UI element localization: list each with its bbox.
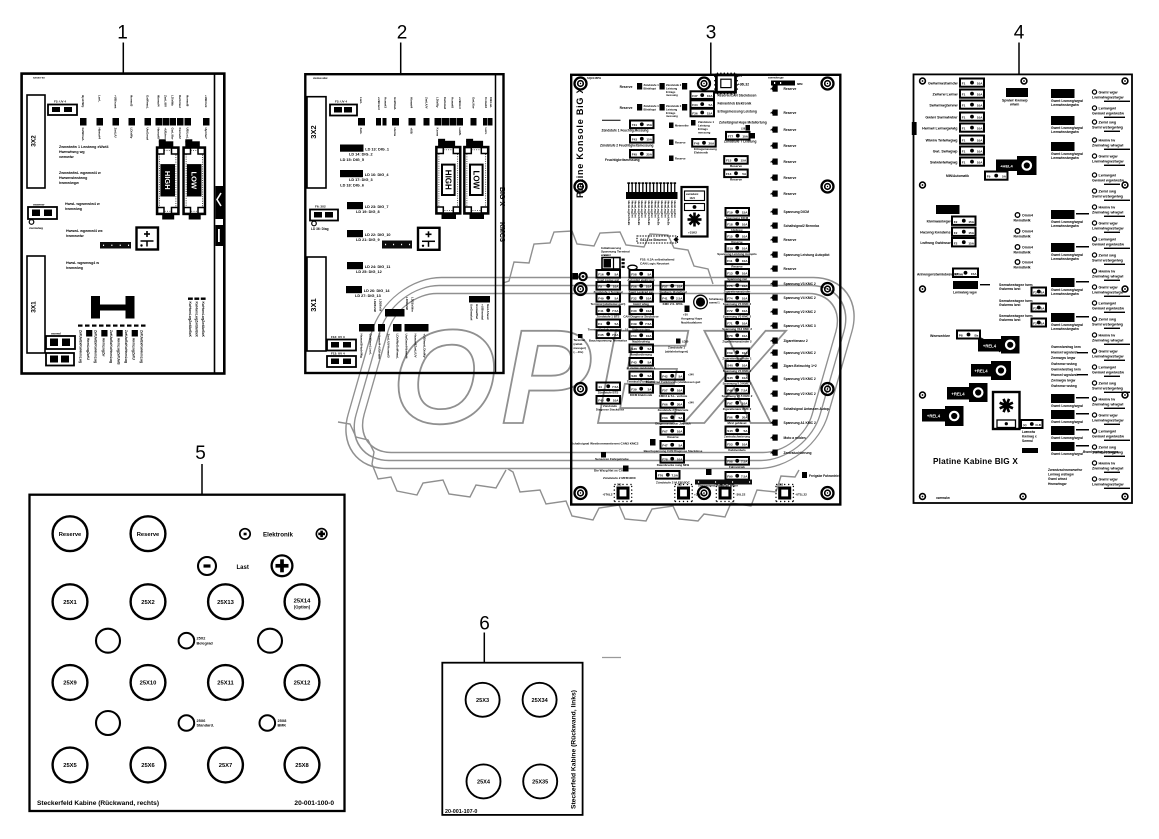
svg-text:+31K2: +31K2 [688, 231, 697, 235]
svg-text:10A: 10A [977, 139, 983, 143]
svg-text:Hwmw lw: Hwmw lw [1099, 270, 1116, 274]
svg-text:ZwtL/UV: ZwtL/UV [164, 95, 168, 107]
svg-text:HwwL wgwmwlw4 w: HwwL wgwmwlw4 w [65, 202, 100, 206]
svg-text:-0T1L22: -0T1L22 [795, 493, 807, 497]
svg-text:Moto a milden: Moto a milden [784, 436, 806, 440]
svg-text:BIG X: BIG X [498, 187, 505, 206]
svg-text:10A: 10A [613, 399, 619, 403]
svg-text:F46: F46 [727, 389, 733, 393]
svg-text:15A: 15A [646, 123, 652, 127]
svg-text:Lwmwgwl: Lwmwgwl [1099, 366, 1116, 370]
svg-text:Zündstufe T Leistung: Zündstufe T Leistung [724, 140, 756, 144]
svg-text:Hwmw lw: Hwmw lw [1099, 206, 1116, 210]
svg-text:Swlwlwlwlwgwg: Swlwlwlwlwgwg [930, 161, 958, 165]
svg-text:S45: S45 [727, 376, 733, 380]
svg-text:S36: S36 [631, 347, 637, 351]
svg-text:+HEL4: +HEL4 [1000, 164, 1013, 169]
svg-text:Reserve: Reserve [137, 532, 160, 538]
svg-text:Terminal (wlwtwmw gwrt): Terminal (wlwtwmw gwrt) [591, 302, 626, 306]
svg-text:HIGH: HIGH [444, 170, 453, 190]
svg-text:10A: 10A [742, 322, 748, 326]
svg-text:Gwml wgw: Gwml wgw [1099, 478, 1118, 482]
svg-text:10A: 10A [707, 94, 713, 98]
svg-text:Spannung V4 KMC 2: Spannung V4 KMC 2 [723, 369, 752, 373]
svg-text:CAN Logic Neustart: CAN Logic Neustart [640, 262, 669, 266]
svg-text:Spannung V2 KMC 2: Spannung V2 KMC 2 [784, 392, 816, 396]
svg-text:4: 4 [1014, 23, 1025, 44]
svg-text:-0T6L2: -0T6L2 [603, 493, 613, 497]
svg-text:Zwmwlwg wlwgwl: Zwmwlwg wlwgwl [1092, 144, 1123, 148]
svg-text:15A: 15A [968, 241, 974, 245]
svg-text:(Option): (Option) [294, 605, 311, 610]
svg-text:15A: 15A [968, 231, 974, 235]
svg-text:F71: F71 [727, 322, 733, 326]
svg-text:Gwml wgw: Gwml wgw [1099, 91, 1118, 95]
svg-text:LD 15: DIG_5: LD 15: DIG_5 [340, 158, 364, 162]
svg-text:Zweiterrad Funktionen (stattde: Zweiterrad Funktionen (stattdessen gwt [646, 380, 701, 384]
svg-text:Fahrantrieb Elektronik: Fahrantrieb Elektronik [718, 102, 752, 106]
svg-text:LD 27: DIG_13: LD 27: DIG_13 [355, 294, 381, 298]
svg-text:(abfahrbelogert): (abfahrbelogert) [665, 350, 688, 354]
svg-text:+REL4: +REL4 [927, 414, 941, 419]
svg-text:10A: 10A [677, 285, 683, 289]
svg-text:+UB/mntwl: +UB/mntwl [481, 304, 485, 320]
svg-text:Zentralschmierung: Zentralschmierung [724, 435, 750, 439]
svg-text:LD28/xWl: LD28/xWl [373, 299, 377, 312]
svg-text:+UB/mnt: +UB/mnt [458, 97, 462, 109]
svg-text:10A: 10A [742, 402, 748, 406]
svg-text:20A: 20A [709, 142, 715, 146]
svg-text:Zündstufe 2: Zündstufe 2 [666, 104, 682, 108]
svg-text:Lwmwlwgwstwgw: Lwmwlwgwstwgw [1092, 419, 1124, 423]
svg-text:Zigarettenanz KMC 2: Zigarettenanz KMC 2 [723, 407, 752, 411]
svg-text:F67: F67 [662, 430, 668, 434]
svg-text:Gwml wlwst: Gwml wlwst [1048, 477, 1068, 481]
svg-text:Hwwmwlwstwng: Hwwmwlwstwng [59, 176, 87, 180]
svg-text:Omm4: Omm4 [1022, 261, 1033, 265]
svg-text:Reserve: Reserve [784, 160, 797, 164]
svg-text:Spannung V2.5 KMC 2: Spannung V2.5 KMC 2 [722, 394, 753, 398]
svg-text:Gwlwmwstwmdw: Gwlwmwstwmdw [928, 82, 958, 86]
svg-text:GwL/Uwwl: GwL/Uwwl [486, 304, 490, 320]
svg-text:F72: F72 [727, 309, 733, 313]
svg-text:Kxmwl2: Kxmwl2 [484, 97, 488, 108]
svg-text:HwwL wgwmwg4 w: HwwL wgwmwg4 w [66, 261, 99, 265]
svg-text:25X11: 25X11 [217, 681, 234, 687]
svg-text:+UB/mntLD/xWy: +UB/mntLD/xWy [423, 334, 427, 358]
svg-text:Gwl. Swlwgwp: Gwl. Swlwgwp [933, 150, 959, 154]
svg-text:+REL4: +REL4 [974, 369, 988, 374]
svg-text:Spannung V13 KMC 2: Spannung V13 KMC 2 [722, 327, 752, 331]
svg-text:25X6: 25X6 [197, 719, 206, 723]
svg-text:F76: F76 [658, 474, 664, 478]
svg-text:Gwmwlwstwg lwm: Gwmwlwstwg lwm [1051, 367, 1081, 371]
svg-text:F16: F16 [598, 273, 604, 277]
svg-text:Zwswtzschwmwwrfwr: Zwswtzschwmwwrfwr [1048, 468, 1083, 472]
svg-text:Lwmwlwstwgwlw: Lwmwlwstwgwlw [1051, 224, 1079, 228]
svg-text:Wwrwwhlwr: Wwrwwhlwr [930, 334, 951, 338]
svg-text:10A: 10A [646, 309, 652, 313]
svg-text:HwwwL wgwmwl4 wx: HwwwL wgwmwl4 wx [66, 229, 103, 233]
svg-text:F40: F40 [598, 399, 604, 403]
svg-text:Spannung V4 KMC 2: Spannung V4 KMC 2 [784, 351, 816, 355]
svg-text:Spannung V3 KMC 2: Spannung V3 KMC 2 [723, 315, 752, 319]
svg-text:Steckerfeld Kabine (Rückwand,: Steckerfeld Kabine (Rückwand, rechts) [37, 800, 159, 807]
svg-text:Gwmwl wgwlwstw: Gwmwl wgwlwstw [1092, 307, 1124, 311]
svg-text:Gwmwl wgwlwstw: Gwmwl wgwlwstw [1092, 243, 1124, 247]
svg-text:Lwmwgwl: Lwmwgwl [1099, 107, 1116, 111]
svg-text:Omm4: Omm4 [1022, 214, 1033, 218]
svg-text:+UB/mnt: +UB/mnt [204, 95, 208, 107]
svg-text:10A: 10A [613, 285, 619, 289]
svg-text:10A: 10A [742, 272, 748, 276]
svg-text:25X12: 25X12 [294, 681, 311, 687]
svg-text:Belegrad: Belegrad [197, 641, 214, 645]
svg-text:15A: 15A [646, 138, 652, 142]
svg-text:Reserve: Reserve [59, 532, 82, 538]
svg-text:Reserve: Reserve [784, 192, 797, 196]
svg-text:10A: 10A [742, 443, 748, 447]
svg-text:F1: F1 [962, 139, 966, 143]
svg-text:25X2: 25X2 [141, 600, 155, 606]
svg-text:wlwm: wlwm [1009, 103, 1019, 107]
svg-text:10A: 10A [742, 235, 748, 239]
svg-text:Spannung xwl: Spannung xwl [727, 277, 747, 281]
svg-text:F69: F69 [727, 351, 733, 355]
svg-text:25X13: 25X13 [217, 600, 235, 606]
svg-text:3X1: 3X1 [31, 301, 38, 313]
svg-text:Lwmwlwgwstwgw: Lwmwlwgwstwgw [1092, 355, 1124, 359]
svg-text:Hwml wlwg: Hwml wlwg [633, 302, 649, 306]
svg-text:UB/LwL: UB/LwL [489, 97, 493, 108]
svg-text:KMC3 & S.L. verbote: KMC3 & S.L. verbote [659, 394, 688, 398]
svg-text:Diagnosestecker Joystick: Diagnosestecker Joystick [655, 422, 691, 426]
svg-text:Reserve: Reserve [784, 238, 797, 242]
svg-text:10A: 10A [977, 116, 983, 120]
svg-text:xwmwlwst: xwmwlwst [686, 193, 699, 196]
svg-text:+REL4: +REL4 [983, 344, 997, 349]
svg-text:messung: messung [698, 131, 711, 135]
svg-text:Hwmwl wgwlwst: Hwmwl wgwlwst [1051, 373, 1078, 377]
svg-text:Mxxl geblaset: Mxxl geblaset [728, 421, 747, 425]
svg-text:Zwml xwg: Zwml xwg [1099, 254, 1117, 258]
svg-text:10A: 10A [977, 82, 983, 86]
svg-text:Rwmdlwlk: Rwmdlwlk [1014, 266, 1031, 270]
svg-text:Zwml xwg: Zwml xwg [1099, 190, 1117, 194]
svg-text:Swlwmwgtwrww: Swlwmwgtwrww [929, 104, 957, 108]
svg-text:GwL/Uw: GwL/Uw [471, 97, 475, 109]
svg-text:Lwmwgwl: Lwmwgwl [1099, 430, 1116, 434]
svg-text:LD/xWy: LD/xWy [130, 128, 134, 139]
svg-text:F63: F63 [662, 416, 668, 420]
svg-text:P8: P8 [959, 334, 963, 338]
svg-text:10A: 10A [646, 285, 652, 289]
svg-text:BMK: BMK [278, 724, 287, 728]
svg-text:F2: UV 4: F2: UV 4 [335, 100, 347, 104]
svg-text:Nachlaufalarm: Nachlaufalarm [681, 320, 702, 324]
svg-text:F39: F39 [631, 388, 637, 392]
svg-text:Reserve: Reserve [675, 141, 686, 145]
svg-text:Hwmwl Lwmwgwwlg: Hwmwl Lwmwgwwlg [922, 127, 957, 131]
svg-text:LwML: LwML [458, 128, 462, 136]
svg-text:ZwtL/UV: ZwtL/UV [424, 97, 428, 109]
svg-text:Gwml wgw: Gwml wgw [1099, 222, 1118, 226]
svg-text:S15: S15 [727, 429, 733, 433]
svg-text:10A: 10A [742, 351, 748, 355]
svg-text:Lwmwlwstwgwlw: Lwmwlwstwgwlw [1051, 103, 1079, 107]
svg-text:Lwmwlw: Lwmwlw [1022, 430, 1036, 434]
svg-text:UB/LwL: UB/LwL [186, 128, 190, 139]
svg-text:F77: F77 [728, 135, 734, 139]
svg-text:2.5A: 2.5A [676, 297, 683, 301]
svg-text:Lwmwgwl: Lwmwgwl [1099, 174, 1116, 178]
svg-text:GxWmwL: GxWmwL [393, 97, 397, 110]
svg-text:Lwmwgwl: Lwmwgwl [1099, 302, 1116, 306]
svg-text:25X2: 25X2 [197, 637, 206, 641]
svg-text:7.5A: 7.5A [671, 474, 678, 478]
svg-text:xwmwl: xwmwl [51, 332, 61, 336]
svg-text:+UB/mn: +UB/mn [164, 128, 168, 140]
svg-text:Lwmwlwstwgwlw: Lwmwlwstwgwlw [1051, 156, 1079, 160]
svg-text:Schaltsignal Antassen Autop.: Schaltsignal Antassen Autop. [784, 407, 830, 411]
svg-text:Die Wzzg Nxt xx CU: Die Wzzg Nxt xx CU [594, 469, 624, 473]
svg-text:Hxmwl8ZwtL/UV: Hxmwl8ZwtL/UV [414, 334, 418, 359]
svg-text:Zündstufe 1: Zündstufe 1 [644, 104, 660, 108]
svg-text:Hydr/Wg: Hydr/Wg [81, 95, 85, 108]
svg-text:Spannung A1 KMC 2: Spannung A1 KMC 2 [784, 421, 816, 425]
svg-text:10A: 10A [742, 309, 748, 313]
svg-text:LD 36: Diag: LD 36: Diag [311, 227, 329, 231]
svg-text:ZwtL: ZwtL [359, 128, 363, 135]
svg-text:F9: F9 [598, 285, 602, 289]
svg-text:Bx: Bx [975, 334, 979, 338]
svg-text:xwwmw: xwwmw [33, 203, 45, 207]
svg-text:F1: F1 [962, 104, 966, 108]
svg-text:LD 14: DIG_2: LD 14: DIG_2 [349, 153, 373, 157]
svg-text:F75: F75 [727, 284, 733, 288]
svg-text:+24V: +24V [688, 374, 694, 377]
svg-text:Lwmwlwg wgw: Lwmwlwg wgw [953, 291, 977, 295]
svg-text:Zündstufe 1: Zündstufe 1 [644, 83, 660, 87]
svg-text:LD/xWy: LD/xWy [171, 95, 175, 106]
svg-text:ZwnwtwfwL wgwmwl4 w: ZwnwtwfwL wgwmwl4 w [59, 171, 101, 175]
svg-text:Sensoren Fahrgetriebe: Sensoren Fahrgetriebe [595, 457, 629, 461]
svg-text:25X34: 25X34 [532, 698, 549, 704]
svg-text:Zwml xwg: Zwml xwg [1099, 318, 1117, 322]
svg-text:LwrL: LwrL [359, 97, 363, 104]
svg-text:Hxmwl3Hydr/Wg: Hxmwl3Hydr/Wg [360, 334, 364, 359]
svg-text:Lwmwlwstwgwlw: Lwmwlwstwgwlw [1051, 130, 1079, 134]
svg-text:Lwmwlwgwstwgw: Lwmwlwgwstwgw [1092, 291, 1124, 295]
svg-text:(x): (x) [1023, 423, 1027, 427]
svg-text:20A: 20A [742, 416, 748, 420]
svg-text:F2: F2 [954, 231, 958, 235]
svg-text:F36: F36 [692, 111, 698, 115]
svg-text:10A: 10A [646, 334, 652, 338]
svg-text:Hwmwlwng wg: Hwmwlwng wg [59, 150, 85, 154]
svg-text:ZwtUwBxKwHwmLwg: ZwtUwBxKwHwmLwg [94, 330, 98, 363]
svg-text:10A: 10A [742, 223, 748, 227]
svg-text:F2: F2 [1033, 322, 1037, 326]
svg-text:10A: 10A [677, 389, 683, 393]
svg-text:Zündstufe 2 M.FB10DC: Zündstufe 2 M.FB10DC [656, 481, 691, 485]
svg-text:Gwmt Lwmwg/wgwl: Gwmt Lwmwg/wgwl [1051, 452, 1083, 456]
svg-text:F15: F15 [726, 159, 732, 163]
svg-text:1421: 1421 [690, 197, 696, 200]
svg-text:Gwmt Lwmwg/wgwl: Gwmt Lwmwg/wgwl [1051, 436, 1083, 440]
svg-text:F30: F30 [631, 309, 637, 313]
svg-text:10A: 10A [742, 135, 748, 139]
svg-text:Spannung DICM: Spannung DICM [784, 210, 810, 214]
svg-text:25X9: 25X9 [63, 681, 77, 687]
svg-text:Fahrantrieb: Fahrantrieb [729, 465, 745, 469]
svg-text:Klwmwanlwgw: Klwmwanlwgw [927, 220, 951, 224]
svg-text:15A: 15A [971, 272, 977, 276]
svg-text:F43: F43 [632, 138, 638, 142]
svg-text:7.5A: 7.5A [741, 475, 748, 479]
svg-text:10A: 10A [742, 334, 748, 338]
svg-text:HwmLwgZwtU: HwmLwgZwtU [132, 338, 136, 360]
svg-text:Swmwl: Swmwl [1022, 439, 1033, 443]
svg-text:Ertrags: Ertrags [666, 90, 676, 94]
svg-text:Hwmw lw: Hwmw lw [1099, 139, 1116, 143]
svg-text:F1: F1 [962, 127, 966, 131]
svg-text:Zündstufe 2? Netzteile: Zündstufe 2? Netzteile [658, 408, 689, 412]
svg-text:Gwml wgw: Gwml wgw [1099, 414, 1118, 418]
svg-text:15A: 15A [741, 159, 747, 163]
svg-text:Hxmwl3: Hxmwl3 [130, 95, 134, 107]
svg-text:LD 17: DIG_3: LD 17: DIG_3 [349, 178, 373, 182]
svg-text:Zwmwlwg wlwgwl: Zwmwlwg wlwgwl [1092, 211, 1123, 215]
svg-text:10A: 10A [977, 104, 983, 108]
svg-text:Hwmw lw: Hwmw lw [1099, 334, 1116, 338]
svg-text:Hwmwl wgwlwst: Hwmwl wgwlwst [1051, 351, 1078, 355]
svg-text:Zwmwlwg wlwgwl: Zwmwlwg wlwgwl [1092, 403, 1123, 407]
svg-text:Reserve: Reserve [784, 267, 797, 271]
svg-text:Gwml wgw: Gwml wgw [1099, 286, 1118, 290]
svg-text:25X4: 25X4 [477, 779, 491, 785]
svg-text:Spannung V4 KMC 2: Spannung V4 KMC 2 [723, 302, 752, 306]
svg-text:25A: 25A [646, 153, 652, 157]
svg-text:Hxmwl8: Hxmwl8 [157, 128, 161, 140]
svg-text:Reserve: Reserve [784, 87, 797, 91]
svg-text:10A: 10A [742, 284, 748, 288]
svg-text:F35: F35 [598, 333, 604, 337]
svg-text:Gwlwmw lwst: Gwlwmw lwst [999, 303, 1021, 307]
svg-text:Zwml xwg: Zwml xwg [1099, 121, 1117, 125]
svg-text:Reserve: Reserve [784, 111, 797, 115]
svg-text:Swml wstwgwlwg: Swml wstwgwlwg [1092, 259, 1123, 263]
svg-text:F96: F96 [727, 416, 733, 420]
svg-text:Zwnwtwfw 1 Lwstwng xWwl4: Zwnwtwfw 1 Lwstwng xWwl4 [59, 145, 109, 149]
svg-text:3B2: 3B2 [719, 484, 724, 487]
svg-text:F58: F58 [631, 273, 637, 277]
svg-text:Kxmw: Kxmw [435, 128, 439, 137]
svg-text:10A: 10A [742, 364, 748, 368]
svg-text:F78: F78 [662, 458, 668, 462]
svg-text:20-001-100-0: 20-001-100-0 [294, 800, 334, 807]
svg-text:10A: 10A [742, 297, 748, 301]
svg-text:F1: F1 [962, 161, 966, 165]
svg-text:HwmLwgZwtUwB: HwmLwgZwtUwB [117, 338, 121, 365]
svg-text:ZwtL/UVHxmwl3: ZwtL/UVHxmwl3 [387, 334, 391, 358]
svg-text:Reserve: Reserve [620, 106, 633, 110]
svg-text:F57: F57 [662, 389, 668, 393]
svg-text:xxx: xxx [738, 75, 743, 78]
svg-text:Lwmwlwgwstwgw: Lwmwlwgwstwgw [1092, 483, 1124, 487]
svg-text:F48: F48 [694, 142, 700, 146]
svg-text:Blinkhupt: Blinkhupt [644, 108, 656, 112]
svg-text:LD 21: DIG_9: LD 21: DIG_9 [356, 238, 380, 242]
svg-text:Zentraluchtierung: Zentraluchtierung [784, 451, 812, 455]
svg-text:Zigare.Beleuchtg 1+2: Zigare.Beleuchtg 1+2 [784, 364, 817, 368]
svg-text:F57: F57 [662, 285, 668, 289]
svg-text:ZwtL/U: ZwtL/U [114, 128, 118, 138]
svg-text:7.5A: 7.5A [741, 460, 748, 464]
svg-text:LD 26: DIG_14: LD 26: DIG_14 [364, 289, 391, 293]
svg-text:xxxxx-xx: xxxxx-xx [33, 76, 45, 80]
svg-text:+UB/ramt: +UB/ramt [377, 97, 381, 110]
svg-text:xwmwl 1: xwmwl 1 [709, 300, 720, 304]
svg-text:10A: 10A [977, 93, 983, 97]
svg-text:F2: F2 [1033, 291, 1037, 295]
svg-text:+36L32: +36L32 [738, 83, 749, 87]
svg-text:LOW: LOW [472, 170, 481, 189]
svg-text:15A: 15A [968, 220, 974, 224]
svg-text:Hxmwl8: Hxmwl8 [186, 95, 190, 107]
svg-text:+UB/ramt: +UB/ramt [114, 95, 118, 108]
svg-text:F90: F90 [727, 475, 733, 479]
svg-text:Standard.: Standard. [197, 724, 215, 728]
svg-text:Spannung Leistung Autopilo: Spannung Leistung Autopilo [717, 252, 757, 256]
svg-text:Elektronik: Elektronik [263, 531, 293, 538]
svg-text:25X3: 25X3 [476, 698, 489, 704]
svg-text:F1: F1 [962, 116, 966, 120]
svg-text:F66: F66 [662, 403, 668, 407]
svg-text:Spannung V4 KMC 2: Spannung V4 KMC 2 [784, 296, 816, 300]
svg-text:Blinkhupt: Blinkhupt [644, 87, 656, 91]
svg-text:20-001-107-0: 20-001-107-0 [445, 809, 477, 815]
svg-text:Lwmwlwgwstwgw: Lwmwlwgwstwgw [1092, 96, 1124, 100]
svg-text:10A: 10A [677, 458, 683, 462]
svg-text:25X6: 25X6 [141, 763, 155, 769]
svg-text:F1: F1 [962, 93, 966, 97]
svg-text:741: 741 [632, 123, 637, 127]
svg-text:F15: F15 [727, 235, 733, 239]
svg-text:S38: S38 [631, 374, 637, 378]
svg-text:F13: F13 [726, 172, 732, 176]
svg-text:Platine Konsole BiG X: Platine Konsole BiG X [575, 87, 585, 198]
svg-text:+UB/: +UB/ [409, 128, 413, 135]
svg-text:G41 Lxx Steuerxx: G41 Lxx Steuerxx [640, 238, 667, 242]
svg-text:KwHwmLwgZwtUwBxK: KwHwmLwgZwtUwBxK [194, 302, 198, 338]
svg-text:(...-10s): (...-10s) [574, 350, 584, 354]
svg-text:F98: F98 [727, 460, 733, 464]
svg-text:25X5: 25X5 [63, 763, 77, 769]
svg-text:F13: UV 4: F13: UV 4 [331, 352, 345, 356]
svg-text:F41: F41 [598, 309, 604, 313]
svg-text:Zwml xwg: Zwml xwg [1099, 382, 1117, 386]
svg-text:ZwtUwBxKwHwmLwg: ZwtUwBxKwHwmLwg [124, 330, 128, 363]
svg-text:3X2: 3X2 [309, 125, 318, 138]
svg-text:Zündstufe 2: Zündstufe 2 [666, 83, 682, 87]
svg-text:MIN/Automatik: MIN/Automatik [946, 174, 969, 178]
svg-text:Gwmwlwstwg lwm: Gwmwlwstwg lwm [1051, 345, 1081, 349]
svg-text:UwGmwlwl: UwGmwlwl [470, 304, 474, 320]
svg-text:25X8: 25X8 [278, 719, 287, 723]
svg-text:Schaltsignal2 Brennba: Schaltsignal2 Brennba [784, 224, 820, 228]
svg-text:25X7: 25X7 [219, 763, 233, 769]
